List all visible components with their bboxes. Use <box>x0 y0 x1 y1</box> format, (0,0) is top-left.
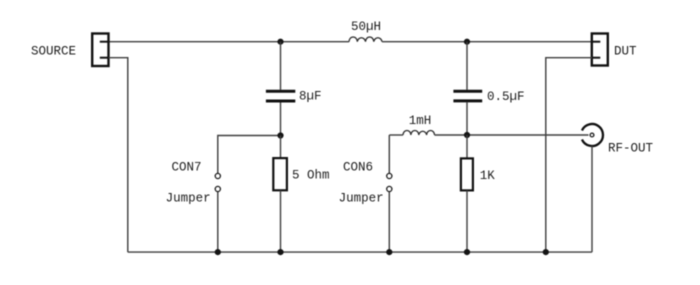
wire bottom rail <box>128 251 592 253</box>
wire CON6 drop <box>388 135 390 173</box>
junction rail R2 <box>464 249 470 255</box>
capacitor C1 8uF <box>266 42 295 136</box>
svg-text:5 Ohm: 5 Ohm <box>292 169 330 183</box>
wire C1 bottom to CON7 <box>218 136 281 174</box>
inductor L1 50uH <box>349 37 382 42</box>
inductor L2 1mH <box>403 131 435 136</box>
wire CON6 bottom to rail <box>388 192 390 252</box>
svg-text:1mH: 1mH <box>409 114 432 128</box>
svg-text:DUT: DUT <box>614 45 637 59</box>
svg-text:RF-OUT: RF-OUT <box>608 142 654 156</box>
jumper CON6 pin circles <box>387 173 392 191</box>
svg-text:SOURCE: SOURCE <box>31 45 76 59</box>
junction rail CON6 <box>386 249 392 255</box>
wire SOURCE pin2 to bottom rail <box>109 58 128 252</box>
wire CON7 bottom to rail <box>217 192 219 252</box>
wire top net: 50uH to DUT pin1 <box>382 41 592 43</box>
svg-text:0.5µF: 0.5µF <box>487 90 525 104</box>
jumper CON7 pin circles <box>215 173 220 191</box>
resistor R2 1K <box>461 135 473 252</box>
connector J1 SOURCE <box>92 34 108 67</box>
junction rail CON7 <box>215 249 221 255</box>
capacitor C2 0.5uF <box>453 42 482 135</box>
wire top net: SOURCE pin1 to 50uH <box>109 41 350 43</box>
svg-text:50µH: 50µH <box>351 20 381 34</box>
junction rail R1 <box>277 249 283 255</box>
svg-text:CON7: CON7 <box>172 161 202 175</box>
junction rail DUT <box>543 249 549 255</box>
svg-text:8µF: 8µF <box>299 90 322 104</box>
wire 1mH to RF-OUT <box>435 134 589 136</box>
resistor R1 5 Ohm <box>273 136 287 253</box>
wire RF net horizontal <box>389 134 403 136</box>
wire DUT pin2 down <box>546 58 592 252</box>
junction top-C1 <box>277 39 283 45</box>
junction RF net at C2 <box>464 132 470 138</box>
junction top-C2 <box>464 39 470 45</box>
svg-text:1K: 1K <box>480 169 496 183</box>
svg-text:CON6: CON6 <box>343 161 373 175</box>
junction C1 bottom <box>277 132 283 138</box>
connector J2 DUT <box>592 34 608 66</box>
svg-text:Jumper: Jumper <box>339 192 384 206</box>
svg-text:Jumper: Jumper <box>166 192 211 206</box>
connector J3 RF-OUT <box>582 124 603 252</box>
